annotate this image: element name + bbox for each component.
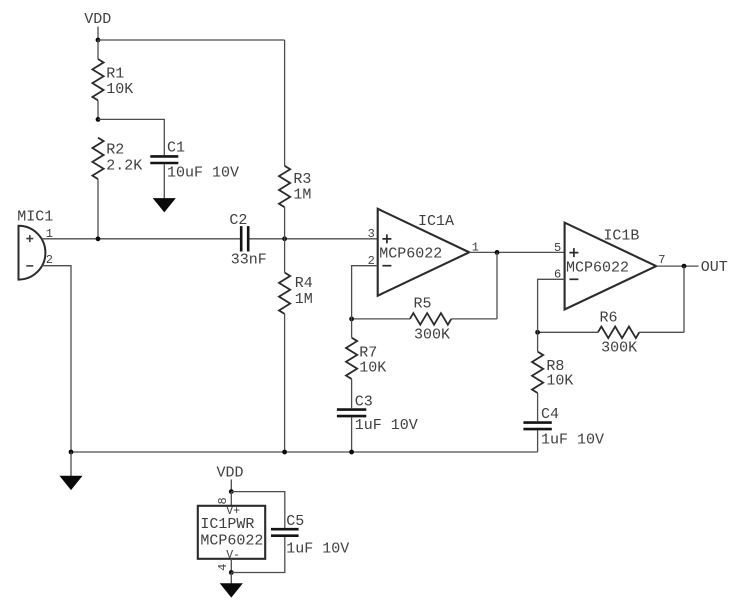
svg-text:5: 5 bbox=[554, 241, 561, 255]
wire down to R3 bbox=[284, 40, 286, 166]
op-amp IC1A bbox=[378, 209, 470, 296]
svg-text:R2: R2 bbox=[106, 141, 124, 158]
svg-text:33nF: 33nF bbox=[231, 251, 267, 268]
svg-text:1uF 10V: 1uF 10V bbox=[355, 417, 418, 434]
node IC1A output junction bbox=[495, 250, 500, 255]
node R2 bottom junction bbox=[96, 236, 101, 241]
svg-text:10K: 10K bbox=[106, 81, 133, 98]
wire C3 to bottom rail bbox=[351, 417, 353, 452]
svg-text:1uF 10V: 1uF 10V bbox=[286, 541, 349, 558]
svg-text:10K: 10K bbox=[546, 373, 573, 390]
svg-text:R4: R4 bbox=[295, 275, 313, 292]
node C2/R3/R4 junction bbox=[282, 236, 287, 241]
svg-text:C5: C5 bbox=[286, 513, 304, 530]
svg-text:2.2K: 2.2K bbox=[106, 157, 142, 174]
svg-text:3: 3 bbox=[368, 227, 375, 241]
op-amp IC1B bbox=[565, 223, 657, 310]
microphone MIC1 bbox=[19, 226, 46, 280]
node R4 bottom junction bbox=[282, 450, 287, 455]
wire R6 right lead bbox=[639, 331, 684, 333]
svg-text:C3: C3 bbox=[355, 394, 373, 411]
wire output down to R5 bbox=[496, 252, 498, 319]
ground below IC1PWR bbox=[230, 573, 232, 584]
resistor R6 bbox=[598, 327, 639, 339]
svg-text:1M: 1M bbox=[293, 186, 311, 203]
svg-text:2: 2 bbox=[46, 253, 53, 267]
svg-text:MCP6022: MCP6022 bbox=[566, 259, 629, 276]
svg-text:1M: 1M bbox=[295, 291, 313, 308]
resistor R7 bbox=[346, 338, 357, 379]
svg-text:8: 8 bbox=[216, 497, 230, 504]
svg-text:R6: R6 bbox=[600, 310, 618, 327]
MIC1 minus mark bbox=[26, 265, 33, 267]
svg-text:VDD: VDD bbox=[217, 465, 244, 482]
svg-text:10K: 10K bbox=[359, 360, 386, 377]
wire MIC1 pin1 to C2 bbox=[42, 238, 240, 240]
IC1A plus mark bbox=[382, 234, 391, 243]
node R1/R2/C1 junction bbox=[96, 117, 101, 122]
node VDD top junction bbox=[96, 38, 101, 43]
wire C4 to bottom rail bbox=[537, 430, 539, 452]
node OUT junction bbox=[682, 264, 687, 269]
wire pin4 bbox=[230, 559, 232, 573]
wire bottom rail bbox=[71, 451, 538, 453]
ground below C1 bbox=[154, 199, 175, 212]
node R6/R8/pin6 junction bbox=[535, 330, 540, 335]
wire MIC1 pin2 down bbox=[42, 266, 71, 452]
wire R5 left lead bbox=[352, 318, 410, 320]
node R5/R7/pin2 junction bbox=[349, 317, 354, 322]
wire C5 loop bottom bbox=[231, 537, 284, 573]
resistor R4 bbox=[279, 273, 290, 314]
resistor R2 bbox=[92, 138, 103, 179]
svg-text:OUT: OUT bbox=[701, 259, 728, 276]
resistor R3 bbox=[279, 166, 290, 207]
resistor R5 bbox=[410, 313, 451, 325]
wire R6 left lead bbox=[538, 331, 598, 333]
wire junction to C1 bbox=[98, 119, 164, 155]
svg-text:1uF 10V: 1uF 10V bbox=[541, 431, 604, 448]
svg-text:10uF 10V: 10uF 10V bbox=[167, 164, 239, 181]
resistor R1 bbox=[92, 59, 103, 100]
svg-text:R5: R5 bbox=[414, 295, 432, 312]
svg-text:300K: 300K bbox=[414, 326, 450, 343]
IC1A minus mark bbox=[382, 265, 391, 267]
IC1PWR box bbox=[198, 506, 265, 559]
svg-text:IC1A: IC1A bbox=[418, 213, 454, 230]
svg-text:MIC1: MIC1 bbox=[17, 208, 53, 225]
wire pin8 bbox=[230, 492, 232, 506]
wire pin5 stub bbox=[564, 251, 566, 253]
svg-text:VDD: VDD bbox=[84, 11, 111, 28]
wire junction up to pin6 bbox=[538, 279, 565, 332]
svg-text:MCP6022: MCP6022 bbox=[200, 532, 263, 549]
wire IC1A out to IC1B pin5 bbox=[469, 251, 564, 253]
resistor R8 bbox=[532, 352, 543, 393]
capacitor C4 bbox=[523, 421, 551, 424]
wire junction up to pin2 bbox=[352, 266, 378, 319]
node bottom-left junction bbox=[69, 450, 74, 455]
svg-text:C4: C4 bbox=[541, 406, 559, 423]
svg-text:MCP6022: MCP6022 bbox=[379, 245, 442, 262]
node C3 bottom junction bbox=[349, 450, 354, 455]
node IC1PWR bottom junction bbox=[229, 570, 234, 575]
capacitor C3 bbox=[337, 408, 366, 411]
wire C5 loop top bbox=[231, 492, 284, 528]
capacitor C1 bbox=[150, 155, 178, 158]
node IC1PWR top junction bbox=[229, 489, 234, 494]
wire R5 right lead bbox=[451, 318, 497, 320]
svg-text:V-: V- bbox=[226, 549, 240, 562]
IC1B plus mark bbox=[569, 248, 578, 257]
capacitor C5 bbox=[271, 528, 299, 531]
svg-text:300K: 300K bbox=[601, 340, 637, 357]
wire C1 to ground bbox=[163, 164, 165, 198]
svg-text:C1: C1 bbox=[167, 140, 185, 157]
svg-text:C2: C2 bbox=[229, 212, 247, 229]
svg-text:IC1PWR: IC1PWR bbox=[200, 516, 254, 533]
IC1B minus mark bbox=[569, 278, 578, 280]
MIC1 plus mark bbox=[26, 235, 33, 242]
wire VDD horizontal to R3 column bbox=[98, 39, 285, 41]
svg-text:4: 4 bbox=[216, 564, 230, 571]
capacitor C2 bbox=[240, 226, 243, 251]
svg-text:7: 7 bbox=[658, 253, 665, 267]
wire OUT down to R6 bbox=[683, 266, 685, 332]
wire C2 to IC1A pin3 bbox=[249, 238, 377, 240]
wire IC1B out to OUT bbox=[656, 265, 698, 267]
ground bottom-left bbox=[70, 452, 72, 476]
svg-text:IC1B: IC1B bbox=[603, 227, 639, 244]
